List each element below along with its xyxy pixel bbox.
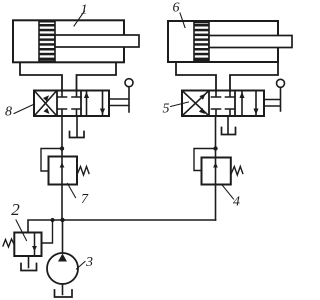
wire cylinder1 cap-end port to valve8 port A <box>20 63 62 92</box>
label 6 leader <box>180 13 185 28</box>
relief valve 2 body <box>14 233 41 257</box>
cylinder 1 piston <box>39 22 55 61</box>
svg-text:4: 4 <box>233 195 240 210</box>
wire bypass around valve 4 <box>194 149 216 171</box>
wire valve5 pressure port down to pump line <box>215 116 217 220</box>
relief valve 2 down arrowhead <box>32 246 37 252</box>
wire valve8 pressure port down to pump line <box>61 116 63 220</box>
valve 8 lever link <box>109 87 129 112</box>
valve 8 centre blocked port top-right <box>72 91 81 97</box>
wire cylinder6 cap-end port to valve5 port A <box>176 62 216 91</box>
cylinder 1 rod <box>55 35 139 47</box>
valve 5 lever knob <box>277 79 285 87</box>
relief valve 2 flow line <box>34 233 36 257</box>
valve 5 crossed-flow arrowhead A <box>199 108 205 114</box>
reservoir under valve 8 <box>70 132 85 138</box>
valve 8 right-section down-flow line <box>102 91 104 116</box>
svg-text:5: 5 <box>163 102 170 117</box>
valve 5 crossed-flow line B <box>183 92 208 116</box>
reservoir under pump 3 <box>55 290 73 297</box>
cylinder 6 rod <box>209 36 292 48</box>
pump 3 circle <box>47 253 78 284</box>
valve 5 centre blocked port bottom-right <box>226 109 235 116</box>
valve 8 crossed-flow arrowhead A <box>44 108 50 114</box>
valve 5 right-section up-flow line <box>241 91 243 116</box>
valve 5 right-section down-flow line <box>255 91 257 116</box>
valve 8 right-section up arrowhead <box>84 92 89 98</box>
valve 4 spring <box>231 167 243 176</box>
valve 8 centre blocked port bottom-right <box>72 109 81 116</box>
svg-text:3: 3 <box>85 255 93 270</box>
valve 5 section divider right <box>234 91 236 117</box>
wire pump distribution line <box>28 220 216 233</box>
valve 5 section divider left <box>208 91 210 117</box>
valve 8 section divider left <box>56 91 58 117</box>
valve 5 body (4/3 directional valve) <box>182 91 264 117</box>
wire pump suction to reservoir <box>62 284 64 295</box>
svg-text:6: 6 <box>173 1 180 16</box>
valve 5 centre blocked port top-left <box>212 91 221 97</box>
valve 7 spring <box>78 167 90 176</box>
valve 5 right-section up arrowhead <box>239 92 244 98</box>
counterbalance valve 4 body <box>202 158 231 185</box>
label 2 leader <box>16 220 27 241</box>
valve 8 crossed-flow arrowhead B <box>43 95 49 101</box>
label 7 leader <box>68 184 76 198</box>
label 4 leader <box>223 186 234 200</box>
valve 8 crossed-flow line A <box>35 92 56 116</box>
reservoir under relief valve 2 <box>21 264 37 271</box>
counterbalance valve 7 body <box>49 157 78 185</box>
node relief pilot junction <box>51 218 55 222</box>
valve 5 lever link <box>264 88 281 112</box>
valve 5 crossed-flow line A <box>183 92 208 116</box>
valve 8 body (4/3 directional valve) <box>34 91 109 117</box>
valve 5 centre blocked port bottom-left <box>212 109 221 116</box>
svg-text:7: 7 <box>81 192 89 207</box>
valve 8 crossed-flow line B <box>35 92 56 116</box>
label 5 leader <box>171 102 189 107</box>
reservoir under valve 5 <box>222 128 236 135</box>
cylinder 6 piston <box>194 23 209 61</box>
valve 8 centre blocked port top-left <box>58 91 67 97</box>
node junction above valve 7 <box>60 146 64 150</box>
wire bypass around valve 7 <box>41 149 62 172</box>
cylinder 6 body <box>168 21 278 62</box>
svg-text:1: 1 <box>81 3 88 18</box>
valve 8 centre blocked port bottom-left <box>58 109 67 116</box>
svg-text:8: 8 <box>5 105 12 120</box>
valve 8 section divider right <box>80 91 82 117</box>
valve 4 flow arrowhead <box>213 163 218 168</box>
wire relief valve pilot line <box>42 220 53 243</box>
valve 8 right-section up-flow line <box>86 91 88 116</box>
valve 7 flow arrowhead <box>60 163 65 168</box>
svg-text:2: 2 <box>11 200 20 219</box>
label 1 leader <box>74 11 85 26</box>
wire cylinder1 rod-end port to valve8 port B <box>77 63 117 92</box>
relief valve 2 spring <box>3 239 14 247</box>
wire pump outlet riser <box>62 220 64 253</box>
pump 3 outlet triangle <box>58 254 67 262</box>
valve 5 right-section down arrowhead <box>253 109 258 115</box>
label 8 leader <box>14 104 35 114</box>
node pump line junction <box>60 218 64 222</box>
wire valve8 tank port to reservoir <box>76 116 78 137</box>
valve 5 centre blocked port top-right <box>226 91 235 97</box>
valve 8 right-section down arrowhead <box>100 109 105 115</box>
label 3 leader <box>77 262 86 270</box>
wire cylinder6 rod-end port to valve5 port B <box>230 62 278 91</box>
wire valve5 tank port to reservoir <box>227 116 229 134</box>
wire relief valve to reservoir <box>28 256 30 268</box>
valve 8 lever knob <box>125 79 133 87</box>
valve 5 crossed-flow arrowhead B <box>199 94 205 100</box>
node junction above valve 4 <box>213 146 217 150</box>
cylinder 1 body <box>13 20 124 62</box>
